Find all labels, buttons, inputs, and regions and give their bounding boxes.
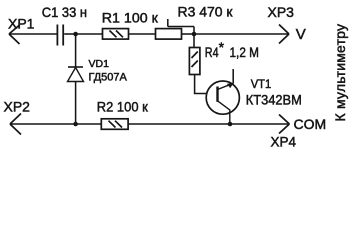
resistor R4 <box>189 48 200 75</box>
wire node C to XP4 <box>230 123 289 125</box>
svg-text:V: V <box>296 26 306 43</box>
connector XP1 <box>9 25 57 44</box>
svg-text:КТ342ВМ: КТ342ВМ <box>246 92 302 108</box>
svg-text:ХР2: ХР2 <box>4 98 31 114</box>
svg-text:COM: COM <box>294 116 327 132</box>
node D <box>73 122 78 127</box>
resistor R3 (variable) <box>156 19 195 39</box>
svg-text:ХР3: ХР3 <box>268 4 295 20</box>
node A <box>73 32 78 37</box>
resistor R1 <box>103 29 129 39</box>
wire R2 to node C <box>128 123 230 125</box>
connector XP4 <box>279 115 289 134</box>
svg-text:С1 33 н: С1 33 н <box>42 4 87 20</box>
svg-text:R2 100 к: R2 100 к <box>97 99 149 115</box>
svg-text:VT1: VT1 <box>251 77 272 91</box>
wire node B down to R4 <box>193 34 195 48</box>
wire node A to R1 <box>76 33 103 35</box>
resistor R2 <box>101 119 128 130</box>
diode VD1 <box>68 67 84 82</box>
label R4* 1,2 M <box>205 39 259 60</box>
svg-text:*: * <box>219 39 225 55</box>
svg-text:ХР1: ХР1 <box>8 15 35 31</box>
capacitor C1 <box>57 25 75 46</box>
transistor VT1 <box>206 81 239 124</box>
wire node A down to diode <box>75 34 77 67</box>
wire R4 to base <box>195 75 207 94</box>
node B <box>192 32 197 37</box>
wire diode to node D <box>75 82 77 125</box>
svg-text:R1 100 к: R1 100 к <box>102 10 159 26</box>
svg-text:ГД507А: ГД507А <box>89 72 128 84</box>
svg-text:R3 470 к: R3 470 к <box>178 3 234 19</box>
svg-text:ХР4: ХР4 <box>271 134 297 149</box>
wire node B to XP3 <box>194 33 289 35</box>
wire R1 to R3 <box>129 33 156 35</box>
node C <box>228 122 233 127</box>
svg-text:1,2 М: 1,2 М <box>230 45 260 60</box>
emitter stub wire <box>232 69 234 84</box>
svg-text:VD1: VD1 <box>89 58 110 70</box>
connector XP3 <box>279 25 289 44</box>
svg-text:R4: R4 <box>205 45 219 60</box>
connector XP2 <box>10 114 101 135</box>
svg-text:К мультиметру: К мультиметру <box>332 24 348 122</box>
